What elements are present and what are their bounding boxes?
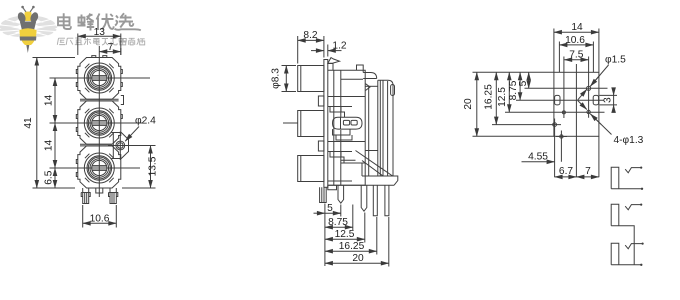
- svg-text:4-φ1.3: 4-φ1.3: [614, 135, 644, 146]
- dim 10.6 line: [559, 44, 593, 46]
- pin detail 1 body: [611, 167, 641, 189]
- top hook: [328, 58, 340, 64]
- leader 4-phi1.3: [590, 114, 611, 135]
- phi2.4 aux jack housing: [112, 133, 129, 159]
- housing oval slot: [333, 117, 363, 129]
- hole 1.3 d crosshair: [560, 135, 563, 138]
- dim 13 ext lines: [78, 34, 121, 56]
- logo bee head: [25, 12, 32, 22]
- logo bee stinger: [26, 45, 29, 53]
- flange plate: [324, 60, 328, 188]
- dim 8.2 line: [298, 39, 324, 41]
- hole 1.3 c: [553, 123, 557, 127]
- pin detail 2 body: [611, 204, 634, 265]
- module3 side nubs: [76, 160, 78, 177]
- svg-text:10.6: 10.6: [565, 35, 585, 46]
- housing outline: [328, 70, 365, 185]
- left dim 12.5 line: [508, 72, 510, 112]
- hole 1.3 a: [587, 110, 590, 113]
- top edge left extension: [473, 71, 554, 73]
- dim chain 14 line a: [54, 78, 56, 123]
- corner chamfer ticks module2: [85, 109, 114, 138]
- top tabs: [92, 56, 107, 58]
- dim 12.5 line: [325, 238, 365, 240]
- dim 13.5 line: [150, 146, 152, 189]
- jack2 circles: [84, 108, 114, 138]
- module boundary lines: [80, 99, 119, 101]
- svg-text:14: 14: [571, 22, 583, 33]
- logo subtitle 原厂直采电子元器件商城: [57, 38, 144, 45]
- jack3 horizontal centerline: [50, 167, 141, 169]
- pin B: [361, 185, 367, 211]
- dim 7 line: [99, 51, 121, 53]
- dim 8.75 line: [325, 226, 353, 228]
- cyl1: [298, 66, 324, 92]
- front view vertical centerline: [98, 46, 100, 197]
- dim 4.55 line: [522, 161, 555, 163]
- dim 10.6 line: [83, 222, 117, 224]
- bottom band: [328, 176, 398, 185]
- dim 13.5 ext line bottom: [122, 187, 156, 189]
- svg-text:13: 13: [94, 27, 106, 38]
- jack3 circles: [84, 153, 114, 183]
- footprint vertical centerline: [575, 64, 577, 177]
- middle bottom ext lines: [325, 204, 389, 267]
- svg-text:4.55: 4.55: [528, 152, 548, 163]
- dim 3 ext lines: [600, 95, 618, 105]
- dim 41 ext lines: [33, 58, 76, 189]
- jack1 circles: [84, 63, 114, 93]
- glyph 电: [64, 13, 71, 29]
- dim 14 line: [554, 31, 599, 33]
- right edge bottom extension: [598, 136, 600, 177]
- small right tab at boundary1: [121, 96, 124, 105]
- svg-text:16.25: 16.25: [484, 84, 495, 110]
- logo bee dark wings: [16, 11, 39, 24]
- top right cap: [341, 73, 377, 80]
- pin detail 3 body: [611, 243, 641, 265]
- housing inner horizontals: [328, 97, 365, 164]
- dim 6.7 line: [555, 176, 577, 178]
- glyph 蜂: [78, 15, 86, 26]
- dim 7 ext line: [120, 48, 122, 55]
- left dim 8.75 line: [519, 72, 521, 100]
- top right latch tab: [357, 65, 364, 73]
- housing inner verticals: [334, 70, 341, 185]
- housing lower details: [328, 160, 362, 181]
- dim 1.2 arrows: [311, 50, 324, 52]
- bottom edge left extension: [473, 135, 554, 137]
- svg-text:φ1.5: φ1.5: [605, 55, 626, 66]
- jack1 slot: [92, 76, 107, 80]
- jack1 horizontal centerline: [50, 77, 151, 79]
- dim 7.5 line: [564, 59, 588, 61]
- flange-housing step: [328, 64, 333, 71]
- svg-text:6.7: 6.7: [559, 166, 573, 177]
- ext lines 10.6: [559, 42, 593, 73]
- front leg: [320, 187, 327, 202]
- svg-text:13.5: 13.5: [147, 156, 158, 176]
- svg-text:20: 20: [352, 253, 364, 264]
- ext lines 14 top: [554, 29, 599, 73]
- dim 20 line: [325, 262, 389, 264]
- logo bee abdomen: [19, 28, 36, 45]
- svg-text:12.5: 12.5: [497, 87, 508, 107]
- dim chain 14 line b: [54, 123, 56, 168]
- front body outline module1: [78, 58, 121, 100]
- svg-text:12.5: 12.5: [335, 229, 355, 240]
- leader phi1.5: [590, 65, 608, 86]
- flange tabs: [318, 96, 324, 106]
- slot pills: [343, 120, 349, 125]
- dim 13 line: [78, 35, 121, 37]
- left dim 16.25 line: [495, 72, 497, 124]
- pin detail 2 wire: [625, 205, 640, 210]
- dim 7b line: [576, 176, 599, 178]
- svg-text:7: 7: [108, 42, 114, 53]
- svg-text:6.5: 6.5: [44, 170, 55, 184]
- module1 side nubs: [76, 70, 122, 87]
- housing bottom-left tab: [328, 185, 337, 190]
- logo bee wings light: [0, 15, 58, 38]
- svg-text:5: 5: [327, 203, 333, 214]
- svg-text:3: 3: [603, 97, 614, 103]
- snap hook notch: [366, 84, 371, 91]
- left dim 20 line: [476, 72, 478, 136]
- front body outline module2: [78, 101, 121, 144]
- dim 41 line: [36, 58, 38, 189]
- logo bee antennae: [23, 8, 33, 13]
- cyl2 centerline: [283, 122, 298, 124]
- jack2 slot: [92, 121, 107, 125]
- dim 10.6 ext lines: [83, 205, 117, 228]
- hole row lines: [525, 87, 608, 89]
- glyph 优: [97, 14, 100, 31]
- dim 16.25 line: [325, 250, 377, 252]
- dim 1.2 ext line: [327, 45, 329, 57]
- dim 3 arrows: [613, 89, 615, 96]
- logo bee thorax: [20, 22, 36, 34]
- jack2 horizontal centerline: [50, 122, 144, 124]
- phi2.4 crosshair: [108, 132, 156, 161]
- dim chain 6.5 line: [54, 168, 56, 188]
- corner chamfer ticks module1: [85, 64, 114, 93]
- dim 8.2 ext lines: [298, 36, 324, 64]
- svg-text:20: 20: [463, 98, 474, 110]
- svg-text:7.5: 7.5: [569, 50, 583, 61]
- right slot: [593, 95, 598, 105]
- bottom legs: [83, 188, 89, 204]
- svg-text:8.75: 8.75: [328, 217, 348, 228]
- cyl3: [298, 156, 324, 182]
- front body bottom edge: [87, 187, 113, 189]
- pin detail 1 wire: [625, 168, 640, 173]
- svg-text:5: 5: [518, 80, 529, 86]
- svg-text:φ2.4: φ2.4: [135, 116, 156, 127]
- dim phi2.4 leader: [125, 127, 139, 142]
- housing step rects mid: [330, 107, 345, 118]
- logo title 电蜂优选: [58, 13, 141, 30]
- dim phi8.3 line: [285, 66, 287, 92]
- module2 side nubs: [76, 115, 122, 132]
- svg-text:8.2: 8.2: [303, 30, 317, 41]
- svg-text:10.6: 10.6: [90, 214, 110, 225]
- rear plate: [378, 80, 393, 176]
- svg-text:1.2: 1.2: [332, 41, 346, 52]
- pin C: [373, 185, 377, 216]
- phi2.4 aux jack circles: [116, 141, 125, 150]
- glyph 选: [115, 16, 141, 31]
- front body outline module3: [78, 146, 121, 188]
- bottom center tab: [96, 188, 103, 193]
- pin detail 3 wire: [625, 244, 642, 249]
- hole phi1.5: [587, 86, 591, 90]
- dim 5 line: [314, 212, 325, 214]
- left slot: [555, 95, 560, 105]
- left dim 5 line: [528, 72, 530, 88]
- svg-text:14: 14: [44, 140, 55, 152]
- svg-text:φ8.3: φ8.3: [270, 68, 281, 89]
- diagonal brace: [356, 151, 393, 177]
- pin D: [385, 185, 389, 216]
- corner chamfer ticks module3: [85, 154, 114, 183]
- pin A: [338, 185, 344, 203]
- cyl2: [298, 111, 324, 137]
- svg-text:7: 7: [585, 166, 591, 177]
- svg-text:16.25: 16.25: [339, 241, 365, 252]
- jack3 slot: [92, 166, 107, 170]
- slot row centerline: [516, 99, 604, 101]
- svg-text:14: 14: [44, 95, 55, 107]
- dim phi8.3 ext lines: [282, 66, 297, 92]
- hole column lines: [564, 57, 589, 119]
- svg-text:41: 41: [23, 117, 34, 129]
- footprint outline: [554, 72, 599, 136]
- hole 1.3 b: [562, 111, 565, 114]
